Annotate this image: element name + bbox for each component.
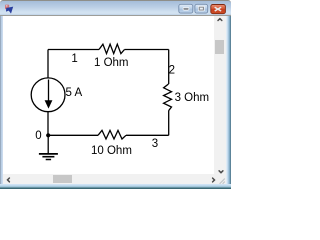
- vertical scrollbar thumb: [215, 40, 224, 54]
- title bar: [0, 0, 231, 16]
- svg-text:1 Ohm: 1 Ohm: [94, 57, 129, 69]
- resistor R1 1 Ohm (top): [99, 44, 125, 53]
- wire: node3 bottom horizontal to resistor R3: [126, 134, 169, 136]
- scrollbar right arrow: [213, 178, 215, 182]
- horizontal scrollbar thumb: [53, 175, 72, 183]
- window frame bottom: [0, 184, 231, 189]
- sizing grip: [220, 179, 225, 184]
- minimize button: [179, 4, 193, 13]
- scrollbar left arrow: [8, 178, 10, 182]
- svg-text:0: 0: [35, 130, 41, 142]
- resistor R3 10 Ohm (bottom): [98, 130, 126, 139]
- maximize button: [195, 4, 208, 13]
- svg-text:5 A: 5 A: [66, 87, 83, 99]
- wire: node1 left vertical from top-left corner to current source top: [47, 50, 49, 79]
- vertical scrollbar track: [214, 16, 226, 174]
- svg-text:1: 1: [71, 53, 77, 65]
- ground: [39, 154, 58, 160]
- svg-text:3: 3: [152, 138, 158, 150]
- wire: node2 top horizontal from R1 to top-right corner: [125, 49, 169, 51]
- junction node 0: [46, 133, 50, 137]
- wire: node3 right vertical from R2 to bottom-right corner: [168, 111, 170, 136]
- svg-text:2: 2: [169, 65, 175, 77]
- resistor R2 3 Ohm (right): [164, 84, 172, 111]
- canvas: [3, 16, 214, 174]
- horizontal scrollbar track: [3, 174, 214, 184]
- current source I1 5 A: [31, 78, 65, 112]
- wire: ground stem: [47, 135, 49, 153]
- close button: [211, 5, 226, 14]
- window frame left: [0, 16, 3, 184]
- wire: node2 right vertical down to resistor R2: [168, 50, 170, 85]
- svg-text:3 Ohm: 3 Ohm: [175, 92, 210, 104]
- window icon: [5, 5, 13, 14]
- scrollbar up arrow: [218, 19, 222, 21]
- wire: node0 left vertical from current source bottom: [47, 112, 49, 136]
- wire: node0 bottom horizontal from R3 to junction: [48, 134, 98, 136]
- wire: node1 top horizontal to resistor R1: [48, 49, 99, 51]
- window frame right: [226, 16, 231, 184]
- scrollbar corner: [214, 174, 226, 184]
- scrollbar down arrow: [219, 171, 223, 173]
- svg-text:10 Ohm: 10 Ohm: [91, 145, 132, 157]
